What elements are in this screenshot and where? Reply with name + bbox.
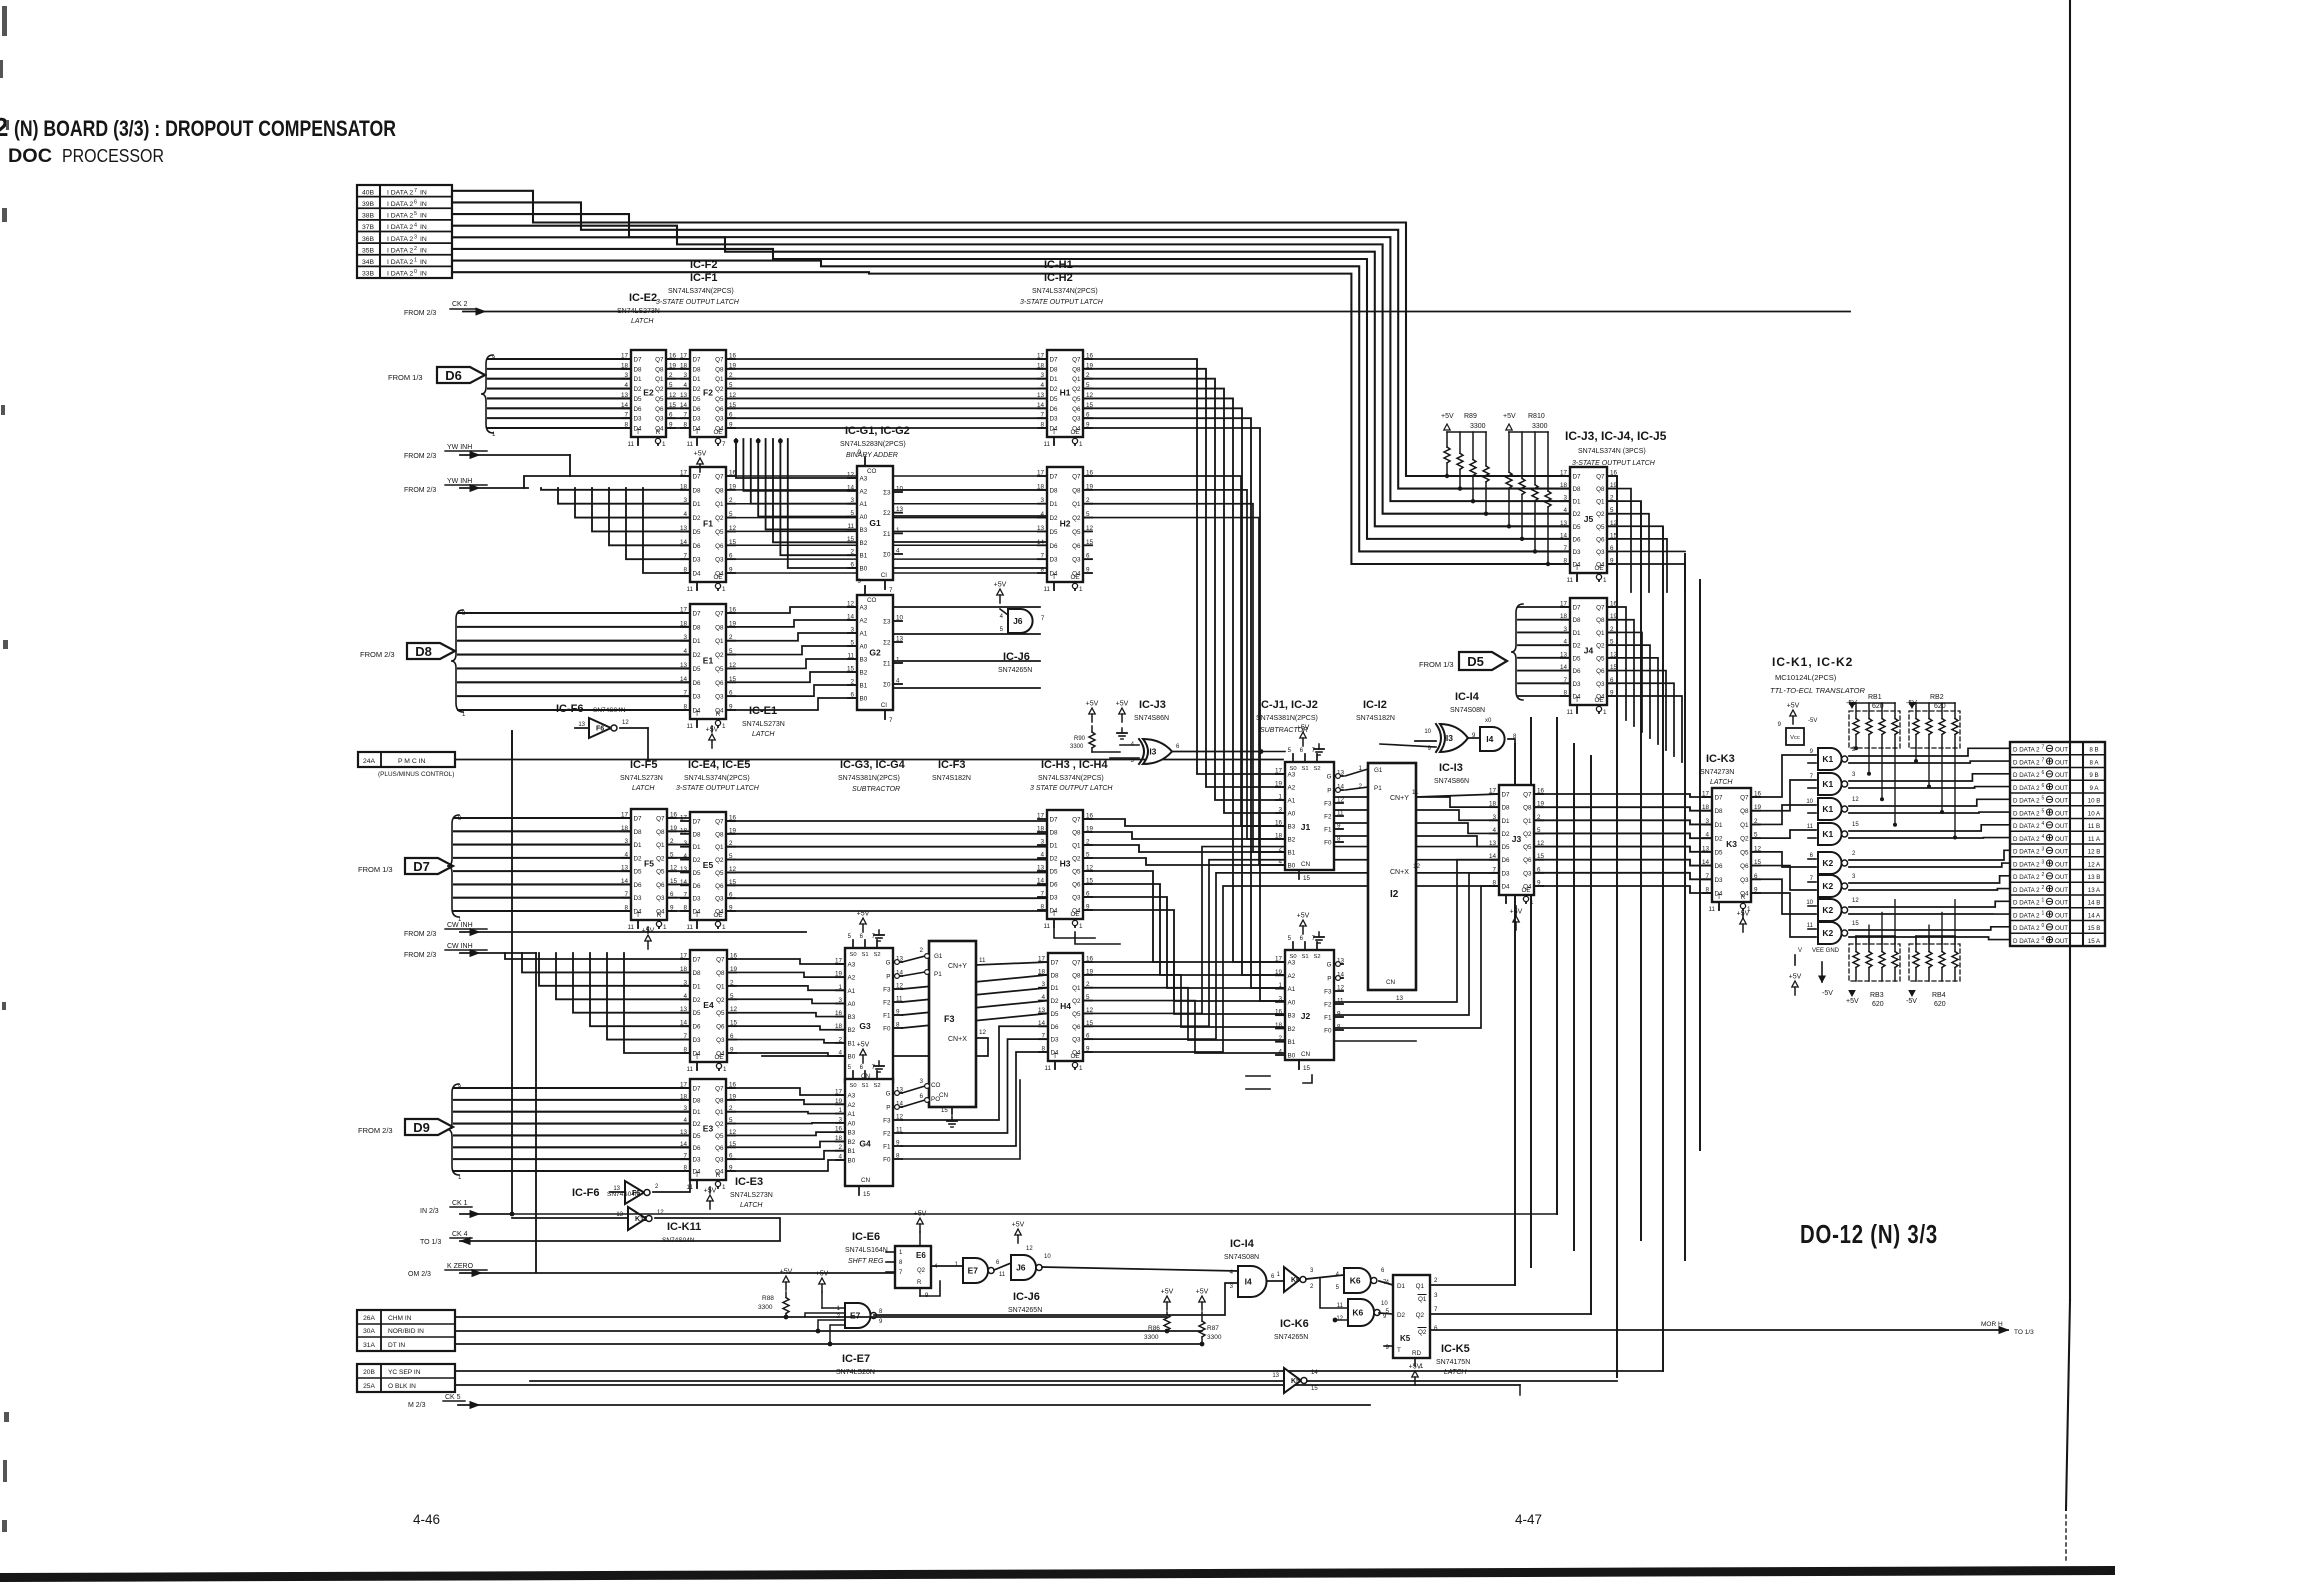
svg-text:11: 11 <box>979 957 986 964</box>
gate inverter IC-K11 <box>512 1207 780 1240</box>
svg-text:A3: A3 <box>848 962 856 969</box>
svg-text:P1: P1 <box>1374 785 1382 792</box>
power +5V under F5 <box>642 927 655 949</box>
svg-text:CN+Y: CN+Y <box>1390 795 1409 802</box>
svg-text:D6: D6 <box>1050 882 1059 889</box>
svg-text:T: T <box>695 711 699 718</box>
svg-text:K6: K6 <box>1350 1276 1361 1286</box>
svg-text:Q8: Q8 <box>715 1097 724 1104</box>
svg-text:D3: D3 <box>1050 895 1059 902</box>
svg-text:D8: D8 <box>1573 486 1582 493</box>
svg-text:D6: D6 <box>1573 536 1582 543</box>
svg-text:YW INH: YW INH <box>447 478 472 485</box>
svg-text:10: 10 <box>1044 1254 1051 1260</box>
svg-text:36B: 36B <box>362 236 375 243</box>
svg-text:40B: 40B <box>362 189 375 196</box>
svg-text:K2: K2 <box>1822 928 1833 938</box>
svg-text:F2: F2 <box>1324 1002 1332 1009</box>
svg-text:IN: IN <box>420 213 427 220</box>
svg-text:CN+Y: CN+Y <box>948 963 967 970</box>
svg-text:B1: B1 <box>1288 1039 1296 1046</box>
label IC-I2 header <box>1356 699 1395 722</box>
svg-text:15: 15 <box>1303 1065 1311 1072</box>
svg-text:13 B: 13 B <box>2088 874 2101 881</box>
svg-text:I3: I3 <box>1446 733 1453 743</box>
svg-text:20B: 20B <box>363 1369 375 1376</box>
svg-text:7: 7 <box>722 441 726 448</box>
svg-text:9: 9 <box>1385 1344 1389 1351</box>
svg-text:33B: 33B <box>362 271 375 278</box>
svg-text:SN74S04N: SN74S04N <box>607 1191 640 1198</box>
svg-text:Q5: Q5 <box>716 1010 725 1017</box>
svg-text:FROM 2/3: FROM 2/3 <box>404 952 436 959</box>
wire bus I DATA top staircase to IC-J5 <box>452 191 1570 564</box>
gate NAND K6 upper <box>1336 1268 1393 1293</box>
svg-text:D3: D3 <box>1502 870 1511 877</box>
svg-text:YC SEP IN: YC SEP IN <box>388 1369 421 1376</box>
svg-text:R810: R810 <box>1528 413 1545 420</box>
svg-text:CN: CN <box>939 1092 949 1099</box>
svg-text:D3: D3 <box>693 694 702 701</box>
svg-text:F6: F6 <box>596 726 604 733</box>
svg-text:Q1: Q1 <box>656 842 665 849</box>
svg-text:Q7: Q7 <box>715 819 724 826</box>
svg-text:Q8: Q8 <box>1740 808 1749 815</box>
svg-text:-5V: -5V <box>1906 998 1917 1005</box>
svg-text:T: T <box>1052 574 1056 581</box>
svg-text:SN74LS374N(2PCS): SN74LS374N(2PCS) <box>684 775 750 782</box>
svg-text:Q5: Q5 <box>1740 849 1749 856</box>
svg-text:35B: 35B <box>362 247 375 254</box>
svg-text:D6: D6 <box>445 368 462 383</box>
IC carry-lookahead F3 <box>919 941 986 1127</box>
svg-text:5: 5 <box>1385 1308 1389 1315</box>
svg-text:8 B: 8 B <box>2089 747 2098 754</box>
svg-text:Q7: Q7 <box>1740 795 1749 802</box>
svg-text:D7: D7 <box>634 816 643 823</box>
svg-text:D2: D2 <box>1715 836 1724 843</box>
label IC-F5 header <box>620 759 663 792</box>
svg-text:D8: D8 <box>1050 487 1059 494</box>
svg-text:B0: B0 <box>1288 1053 1296 1060</box>
label IC-H3 IC-H4 header <box>1030 759 1113 792</box>
svg-text:I DATA 2: I DATA 2 <box>387 247 413 254</box>
svg-text:Q3: Q3 <box>656 895 665 902</box>
svg-text:3300: 3300 <box>758 1304 773 1311</box>
svg-text:A0: A0 <box>860 514 868 521</box>
svg-text:D5: D5 <box>1573 524 1582 531</box>
svg-text:FROM 1/3: FROM 1/3 <box>358 865 393 874</box>
svg-text:5: 5 <box>2042 796 2045 802</box>
svg-text:7: 7 <box>889 717 893 724</box>
svg-text:T: T <box>695 1172 699 1179</box>
svg-text:D8: D8 <box>634 829 643 836</box>
svg-text:D7: D7 <box>1050 474 1059 481</box>
svg-text:Q7: Q7 <box>1072 474 1081 481</box>
svg-text:Q7: Q7 <box>715 357 724 364</box>
svg-text:11 A: 11 A <box>2088 836 2101 843</box>
svg-text:SUBTRACTOR: SUBTRACTOR <box>852 786 900 793</box>
svg-text:11: 11 <box>999 1272 1006 1278</box>
svg-text:11: 11 <box>1337 1303 1344 1309</box>
svg-text:Q3: Q3 <box>1072 416 1081 423</box>
svg-text:SN74LS164N: SN74LS164N <box>845 1247 888 1254</box>
svg-text:Q8: Q8 <box>655 366 664 373</box>
svg-text:RB4: RB4 <box>1932 992 1946 999</box>
wire YC SEP / O BLK lines <box>455 1371 1663 1395</box>
svg-text:LATCH: LATCH <box>740 1202 763 1209</box>
svg-text:14: 14 <box>1311 1370 1318 1376</box>
label IC-F6 lower header <box>572 1187 640 1199</box>
svg-text:Q2: Q2 <box>1523 831 1532 838</box>
svg-text:CI: CI <box>881 572 888 579</box>
svg-text:F0: F0 <box>1324 1028 1332 1035</box>
svg-text:SHFT REG: SHFT REG <box>848 1258 884 1265</box>
svg-text:IC-J1, IC-J2: IC-J1, IC-J2 <box>1258 699 1318 711</box>
svg-text:D5: D5 <box>1715 849 1724 856</box>
svg-text:A2: A2 <box>848 975 856 982</box>
svg-text:SN74LS283N(2PCS): SN74LS283N(2PCS) <box>840 441 906 448</box>
svg-text:D3: D3 <box>693 896 702 903</box>
svg-text:1: 1 <box>1530 899 1534 906</box>
svg-text:Q1: Q1 <box>1072 985 1081 992</box>
svg-text:2: 2 <box>414 246 417 252</box>
svg-text:K2: K2 <box>1822 905 1833 915</box>
svg-text:1: 1 <box>722 586 726 593</box>
svg-text:G1: G1 <box>1374 767 1383 774</box>
wire CHM NOR DT lines <box>455 1317 1202 1344</box>
connector D DATA output stack 8B-15A <box>2010 742 2105 946</box>
svg-text:A1: A1 <box>860 631 868 638</box>
svg-text:D1: D1 <box>1051 985 1060 992</box>
svg-text:D5: D5 <box>693 870 702 877</box>
svg-text:A3: A3 <box>848 1093 856 1100</box>
svg-text:LATCH: LATCH <box>1710 779 1733 786</box>
svg-text:+5V: +5V <box>780 1269 793 1276</box>
svg-text:A2: A2 <box>1288 973 1296 980</box>
svg-text:D5: D5 <box>1050 869 1059 876</box>
label TO 1/3 CK4 <box>420 1231 780 1246</box>
svg-text:I DATA 2: I DATA 2 <box>387 271 413 278</box>
svg-text:2: 2 <box>1434 1277 1438 1284</box>
svg-text:F1: F1 <box>1324 1015 1332 1022</box>
svg-text:LATCH: LATCH <box>1444 1369 1467 1376</box>
label FROM 2/3 K ZERO <box>408 1263 895 1278</box>
svg-text:IC-E7: IC-E7 <box>842 1353 870 1365</box>
svg-text:IC-E1: IC-E1 <box>749 705 777 717</box>
svg-text:D3: D3 <box>693 1037 702 1044</box>
svg-text:10: 10 <box>1424 729 1431 735</box>
svg-text:D4: D4 <box>693 571 702 578</box>
svg-text:R89: R89 <box>1464 413 1477 420</box>
svg-text:IC-K6: IC-K6 <box>1280 1318 1309 1330</box>
svg-text:D1: D1 <box>693 1109 702 1116</box>
svg-text:F2: F2 <box>883 1000 891 1007</box>
svg-text:12: 12 <box>1026 1246 1033 1252</box>
svg-text:D6: D6 <box>693 543 702 550</box>
svg-text:IC-F6: IC-F6 <box>572 1187 600 1199</box>
svg-text:I DATA 2: I DATA 2 <box>387 189 413 196</box>
svg-text:R: R <box>656 429 661 436</box>
svg-text:11: 11 <box>1044 1065 1051 1072</box>
svg-text:B2: B2 <box>860 670 868 677</box>
label IC-E1 header <box>742 705 785 738</box>
svg-text:34B: 34B <box>362 259 375 266</box>
svg-text:CO: CO <box>931 1082 941 1089</box>
svg-text:F2: F2 <box>1324 814 1332 821</box>
svg-text:IC-K1, IC-K2: IC-K1, IC-K2 <box>1772 655 1853 669</box>
svg-text:D8: D8 <box>693 970 702 977</box>
svg-text:VEE GND: VEE GND <box>1812 948 1840 954</box>
svg-text:Q1: Q1 <box>1072 843 1081 850</box>
svg-text:Q5: Q5 <box>1072 529 1081 536</box>
svg-text:IC-F1: IC-F1 <box>690 272 718 284</box>
svg-text:H3: H3 <box>1060 859 1071 869</box>
svg-text:G: G <box>886 1091 891 1098</box>
label IC-E4 IC-E5 header <box>676 759 760 792</box>
IC latch E4 <box>680 950 738 1073</box>
svg-text:FROM 2/3: FROM 2/3 <box>404 453 436 460</box>
gate XOR IC-J3 <box>1110 739 1285 764</box>
power +5V under E1 <box>706 726 719 748</box>
svg-text:OUT: OUT <box>2055 925 2068 932</box>
page fold line <box>2066 0 2070 1560</box>
svg-text:OE: OE <box>1070 911 1079 918</box>
svg-text:CW INH: CW INH <box>447 922 473 929</box>
svg-text:E5: E5 <box>703 860 714 870</box>
IC latch K3 <box>1702 788 1762 913</box>
svg-text:11: 11 <box>686 441 693 448</box>
svg-text:D2: D2 <box>1502 831 1511 838</box>
svg-text:IC-J6: IC-J6 <box>1003 651 1030 663</box>
label IC-I3 upper header <box>1434 762 1469 785</box>
svg-text:11: 11 <box>1807 923 1814 929</box>
svg-text:CN: CN <box>861 1177 871 1184</box>
svg-text:K6: K6 <box>1352 1308 1363 1318</box>
svg-text:G2: G2 <box>869 648 881 658</box>
svg-text:12 A: 12 A <box>2088 861 2101 868</box>
svg-text:11: 11 <box>686 723 693 730</box>
svg-text:10: 10 <box>1806 900 1813 906</box>
svg-text:RD: RD <box>1412 1350 1422 1357</box>
svg-text:O BLK IN: O BLK IN <box>388 1383 416 1390</box>
IC carry-lookahead I2 <box>1358 763 1420 1002</box>
svg-text:Q8: Q8 <box>1596 486 1605 493</box>
svg-text:D8: D8 <box>634 366 643 373</box>
svg-text:Q3: Q3 <box>1072 557 1081 564</box>
svg-text:Q3: Q3 <box>715 896 724 903</box>
svg-text:IC-F5: IC-F5 <box>630 759 658 771</box>
svg-text:SN74S08N: SN74S08N <box>1224 1254 1259 1261</box>
svg-text:OE: OE <box>1070 1053 1079 1060</box>
svg-text:+5V: +5V <box>1196 1289 1209 1296</box>
svg-text:37B: 37B <box>362 224 375 231</box>
svg-text:D5: D5 <box>693 396 702 403</box>
connector 24A PMC IN <box>358 752 455 778</box>
svg-text:K1: K1 <box>1822 779 1833 789</box>
svg-text:9: 9 <box>857 578 861 585</box>
svg-text:D5: D5 <box>693 529 702 536</box>
svg-text:Q1: Q1 <box>1596 630 1605 637</box>
node D7 from 1/3 <box>358 858 453 874</box>
svg-text:3300: 3300 <box>1070 744 1084 750</box>
svg-text:IN: IN <box>420 236 427 243</box>
svg-text:9 A: 9 A <box>2090 785 2100 792</box>
wire bus D5 to IC-J4 <box>1511 604 1570 700</box>
svg-text:SN74S182N: SN74S182N <box>932 775 971 782</box>
svg-text:D3: D3 <box>1050 557 1059 564</box>
svg-text:Q7: Q7 <box>1523 792 1532 799</box>
svg-text:Q8: Q8 <box>715 366 724 373</box>
svg-text:+5V: +5V <box>914 1211 927 1218</box>
svg-text:3300: 3300 <box>1207 1334 1222 1341</box>
IC subtractor G3 <box>835 911 904 1095</box>
svg-text:IC-K3: IC-K3 <box>1706 753 1735 765</box>
svg-text:D5: D5 <box>1051 1011 1060 1018</box>
svg-text:CN: CN <box>1301 1051 1311 1058</box>
svg-text:CO: CO <box>867 597 877 604</box>
svg-text:D2: D2 <box>693 652 702 659</box>
svg-text:D7: D7 <box>1050 357 1059 364</box>
svg-text:D8: D8 <box>693 624 702 631</box>
svg-text:D7: D7 <box>693 357 702 364</box>
svg-text:R88: R88 <box>762 1295 774 1302</box>
svg-text:K6: K6 <box>1291 1277 1300 1284</box>
svg-text:+5V: +5V <box>1846 998 1859 1005</box>
svg-text:SN74LS374N(2PCS): SN74LS374N(2PCS) <box>1038 775 1104 782</box>
svg-text:S1: S1 <box>861 952 868 958</box>
svg-text:B0: B0 <box>860 696 868 703</box>
resistors R89/R810 pullups 3300 <box>1441 413 1551 566</box>
svg-text:R: R <box>917 1280 922 1286</box>
svg-text:B3: B3 <box>848 1014 856 1021</box>
power +5V under K3 <box>1737 911 1750 933</box>
svg-text:I DATA 2: I DATA 2 <box>387 259 413 266</box>
label IC-J1 IC-J2 header <box>1256 699 1318 734</box>
svg-text:A1: A1 <box>848 988 856 995</box>
svg-text:+5V: +5V <box>816 1271 829 1278</box>
svg-text:F2: F2 <box>703 388 713 398</box>
power Vcc box at K1 <box>1778 703 1818 746</box>
svg-text:+5V: +5V <box>1161 1289 1174 1296</box>
svg-text:B1: B1 <box>848 1148 856 1155</box>
svg-text:IC-F6: IC-F6 <box>556 703 584 715</box>
svg-text:SN74S04N: SN74S04N <box>593 707 626 714</box>
IC latch H1 <box>1037 350 1094 448</box>
svg-text:B3: B3 <box>1288 1013 1296 1020</box>
svg-text:1: 1 <box>1603 577 1607 584</box>
svg-text:11: 11 <box>1566 709 1573 716</box>
node D6 from 1/3 <box>388 367 485 383</box>
svg-text:Q1: Q1 <box>655 376 664 383</box>
svg-text:Q3: Q3 <box>1072 1037 1081 1044</box>
svg-text:D7: D7 <box>1715 795 1724 802</box>
svg-text:G3: G3 <box>859 1021 871 1031</box>
IC subtractor G4 <box>835 1042 904 1199</box>
svg-text:Q2: Q2 <box>1072 998 1081 1005</box>
svg-text:H1: H1 <box>1060 388 1071 398</box>
svg-text:S1: S1 <box>861 1083 868 1089</box>
svg-text:4: 4 <box>1385 1279 1389 1286</box>
wire bus D8 to IC-E1 <box>451 610 690 718</box>
svg-text:G: G <box>886 960 891 967</box>
label IC-H1 IC-H2 header <box>1020 259 1104 306</box>
svg-text:IC-E2: IC-E2 <box>629 292 657 304</box>
page number 4-47 <box>1515 1512 1542 1527</box>
svg-text:13: 13 <box>1396 995 1404 1002</box>
gate NAND IC-J6 lower <box>1011 1222 1238 1281</box>
svg-text:CN: CN <box>1386 979 1396 986</box>
svg-text:11: 11 <box>1412 789 1419 796</box>
node D8 from 2/3 <box>360 643 455 659</box>
wire K1/K2 outputs to output connector <box>1849 748 2010 939</box>
svg-text:Q1: Q1 <box>715 844 724 851</box>
svg-text:CK 4: CK 4 <box>452 1231 468 1238</box>
svg-text:LATCH: LATCH <box>752 731 775 738</box>
svg-text:Σ1: Σ1 <box>883 531 891 538</box>
svg-text:12: 12 <box>1413 863 1421 870</box>
svg-text:IN: IN <box>420 259 427 266</box>
svg-text:38B: 38B <box>362 213 375 220</box>
svg-text:D8: D8 <box>693 487 702 494</box>
svg-text:K1: K1 <box>1822 804 1833 814</box>
svg-text:Q6: Q6 <box>1596 536 1605 543</box>
svg-text:IC-F3: IC-F3 <box>938 759 966 771</box>
svg-text:1: 1 <box>662 441 666 448</box>
svg-text:P: P <box>1327 788 1331 795</box>
svg-text:Q3: Q3 <box>715 557 724 564</box>
svg-text:D7: D7 <box>634 357 643 364</box>
svg-text:A3: A3 <box>860 605 868 612</box>
svg-text:Q7: Q7 <box>1596 474 1605 481</box>
svg-text:H4: H4 <box>1060 1001 1071 1011</box>
svg-text:11 B: 11 B <box>2088 823 2100 830</box>
svg-text:15: 15 <box>863 1191 871 1198</box>
power +5V under E2 <box>694 451 707 473</box>
svg-text:IC-I3: IC-I3 <box>1439 762 1463 774</box>
svg-text:A0: A0 <box>1288 811 1296 818</box>
svg-text:D6: D6 <box>1050 543 1059 550</box>
label FROM 2/3 CK5 <box>408 1394 1370 1409</box>
svg-text:24A: 24A <box>363 758 376 765</box>
power VEE GND at K2 <box>1789 948 1840 997</box>
svg-text:D2: D2 <box>634 386 643 393</box>
svg-text:CN+X: CN+X <box>948 1036 967 1043</box>
svg-text:+5V: +5V <box>1297 913 1310 920</box>
svg-text:Q2: Q2 <box>1740 836 1749 843</box>
svg-text:6: 6 <box>414 199 417 205</box>
svg-text:1: 1 <box>1079 586 1083 593</box>
svg-text:Q2: Q2 <box>1072 386 1081 393</box>
svg-text:Q1: Q1 <box>715 638 724 645</box>
svg-text:A2: A2 <box>860 618 868 625</box>
svg-text:E7: E7 <box>968 1266 979 1276</box>
svg-text:D8: D8 <box>693 1097 702 1104</box>
svg-text:D DATA 2: D DATA 2 <box>2013 849 2040 856</box>
svg-text:SN74S182N: SN74S182N <box>1356 715 1395 722</box>
svg-text:G: G <box>1327 774 1332 781</box>
wire bus latch J3 to IC-K3 <box>1534 794 1712 893</box>
svg-text:IN: IN <box>420 224 427 231</box>
svg-text:Q2: Q2 <box>715 386 724 393</box>
IC adder G1 <box>847 449 904 594</box>
svg-text:Q5: Q5 <box>1072 1011 1081 1018</box>
svg-text:D2: D2 <box>1573 511 1582 518</box>
svg-text:Q6: Q6 <box>1523 857 1532 864</box>
label IC-J6 upper header <box>998 651 1032 674</box>
gate AND IC-I4 lower <box>1230 1266 1284 1297</box>
svg-text:Q6: Q6 <box>655 406 664 413</box>
